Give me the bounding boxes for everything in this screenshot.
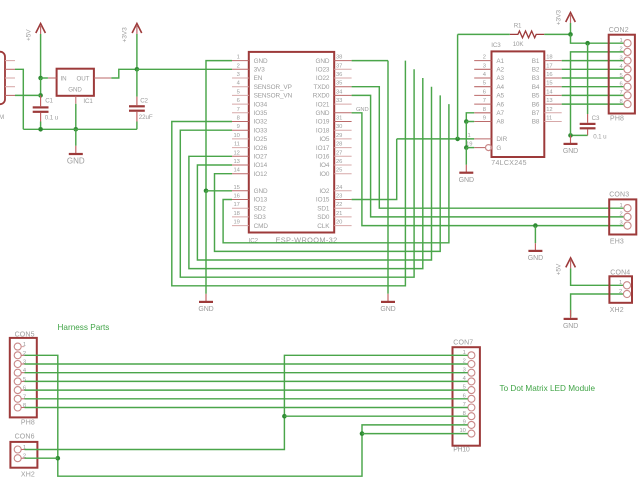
wire GND branch down — [534, 226, 536, 244]
pin CON4.1 — [623, 282, 630, 289]
svg-text:10: 10 — [234, 133, 240, 139]
pin CON7.1 — [468, 352, 475, 359]
ground (below C3) — [564, 143, 578, 145]
svg-text:IO26: IO26 — [254, 145, 268, 152]
junction CON2.1 / C3 — [585, 41, 590, 46]
svg-text:PH10: PH10 — [453, 447, 470, 454]
svg-text:IO19: IO19 — [316, 119, 330, 126]
pin IC3.9 A8 — [474, 121, 491, 123]
svg-text:IO12: IO12 — [254, 171, 268, 178]
svg-text:A7: A7 — [496, 110, 504, 117]
wire GND rail — [23, 128, 137, 130]
pin IC3.19 G (inverted) — [474, 147, 485, 149]
svg-text:XH2: XH2 — [610, 307, 624, 314]
pin IC3.8 A7 — [474, 112, 491, 114]
supply +5V (left) — [36, 24, 46, 34]
pin CON1.3 — [5, 77, 15, 79]
wire B5 to CON2.7 — [562, 94, 624, 96]
svg-text:1: 1 — [619, 203, 622, 209]
svg-text:IO18: IO18 — [316, 127, 330, 134]
svg-text:24: 24 — [336, 185, 343, 191]
wire B2 to CON2.4 — [562, 68, 624, 70]
ground (below IC3) — [459, 172, 473, 174]
pin CON7.8 — [468, 413, 475, 420]
pin IC2.5 SENSOR_VN — [232, 94, 249, 96]
svg-text:+5V: +5V — [555, 263, 562, 275]
pin CON5.5 — [14, 378, 21, 385]
svg-text:C3: C3 — [592, 115, 600, 122]
svg-text:GND: GND — [254, 58, 268, 65]
wire IO32 (IC2.8 to A1) — [172, 61, 406, 286]
pin IC2.21 SD0 — [334, 216, 351, 218]
svg-text:IO32: IO32 — [254, 119, 268, 126]
svg-text:3: 3 — [237, 72, 240, 78]
capacitor C2 — [129, 105, 145, 107]
svg-text:GND: GND — [315, 58, 329, 65]
svg-text:GND: GND — [67, 157, 85, 166]
wire 3V3 junction to IC2 pin2 — [137, 68, 232, 70]
wire CON5.2 / CON6.2 net — [25, 355, 363, 476]
svg-text:B4: B4 — [532, 84, 540, 91]
wire +3V3 to CON2.1 — [571, 34, 624, 43]
pin IC2.26 IO4 — [334, 164, 351, 166]
pin IC2.38 GND — [334, 60, 351, 62]
pin CON3.3 — [624, 222, 631, 229]
svg-text:IO25: IO25 — [254, 136, 268, 143]
svg-text:PH8: PH8 — [610, 115, 624, 122]
svg-text:12: 12 — [234, 150, 240, 156]
svg-text:7: 7 — [237, 107, 240, 113]
pin CON7.6 — [468, 395, 475, 402]
svg-text:19: 19 — [234, 220, 240, 226]
pin IC2.31 IO19 — [334, 121, 351, 123]
wire DIR row — [397, 138, 475, 140]
svg-text:IO16: IO16 — [316, 154, 330, 161]
lead C1 top — [40, 95, 42, 106]
pin IC3.11 B8 — [544, 121, 561, 123]
pin IC1 IN stub — [48, 77, 57, 79]
wire IO33 (IC2.9 to A2) — [180, 69, 414, 277]
svg-text:IO0: IO0 — [319, 171, 330, 178]
svg-text:11: 11 — [234, 142, 240, 148]
pin IC3.1 DIR — [474, 138, 491, 140]
svg-text:26: 26 — [336, 159, 342, 165]
wire CON1.5 to +5V junction — [15, 94, 41, 96]
pin IC2.25 IO0 — [334, 173, 351, 175]
wire +5V vertical to IN junction — [40, 34, 42, 78]
svg-text:SD2: SD2 — [254, 205, 267, 212]
wire CON6.1 to CON7.1 net — [25, 355, 468, 449]
buffer IC3 body — [492, 51, 545, 157]
svg-text:2: 2 — [619, 47, 622, 53]
pin IC3.6 A5 — [474, 94, 491, 96]
svg-text:37: 37 — [336, 63, 342, 69]
svg-text:28: 28 — [336, 142, 342, 148]
svg-text:DIR: DIR — [496, 136, 507, 143]
svg-text:13: 13 — [234, 159, 240, 165]
lead C2 top — [136, 97, 138, 106]
svg-text:IO23: IO23 — [316, 67, 330, 74]
svg-text:IO22: IO22 — [316, 75, 330, 82]
svg-text:5: 5 — [483, 81, 486, 87]
pin IC2.17 SD2 — [232, 207, 249, 209]
svg-text:CON7: CON7 — [453, 339, 473, 346]
pin IC2.28 IO17 — [334, 147, 351, 149]
pin IC2.9 IO33 — [232, 129, 249, 131]
pin CON7.5 — [468, 387, 475, 394]
svg-text:6: 6 — [483, 89, 486, 95]
lead C1 bottom — [40, 113, 42, 122]
pin IC2.37 IO23 — [334, 68, 351, 70]
svg-text:CLK: CLK — [317, 223, 330, 230]
ground (below IC2 left) — [199, 301, 213, 303]
pin CON5.1 — [14, 343, 21, 350]
svg-text:8: 8 — [237, 116, 240, 122]
svg-text:12: 12 — [546, 107, 552, 113]
svg-text:A3: A3 — [496, 75, 504, 82]
pin IC2.24 IO2 — [334, 190, 351, 192]
svg-text:33: 33 — [336, 98, 342, 104]
svg-text:17: 17 — [546, 63, 552, 69]
pin IC2.6 IO34 — [232, 103, 249, 105]
wire 3V3 down to C2 — [136, 69, 138, 96]
svg-text:B6: B6 — [532, 101, 540, 108]
svg-text:CON3: CON3 — [609, 192, 629, 199]
svg-text:2: 2 — [483, 55, 486, 61]
svg-text:GND: GND — [563, 148, 578, 155]
wire CON5.5 to CON7.4 — [25, 380, 468, 382]
svg-text:30: 30 — [336, 124, 342, 130]
svg-text:2: 2 — [619, 289, 622, 295]
wire CON7.10 — [362, 433, 468, 435]
wire CON5.6 to CON7.5 — [25, 389, 468, 391]
svg-text:RXD0: RXD0 — [313, 93, 330, 100]
regulator IC1 body — [57, 69, 94, 96]
svg-text:21: 21 — [336, 211, 342, 217]
pin IC2.14 IO12 — [232, 173, 249, 175]
lead ground right — [387, 294, 389, 302]
wire IC1 GND down to rail — [75, 104, 77, 130]
svg-text:+3V3: +3V3 — [122, 27, 129, 43]
wire CON6.2 stub to vertical — [25, 457, 58, 459]
pin CON5.4 — [14, 369, 21, 376]
svg-text:38: 38 — [336, 55, 342, 61]
junction C3 GND / CON2.2 — [568, 133, 573, 138]
pin IC2.8 IO32 — [232, 121, 249, 123]
svg-text:CON6: CON6 — [15, 433, 35, 440]
pin IC2.18 SD3 — [232, 216, 249, 218]
connector CON3 body — [609, 199, 636, 234]
pin IC2.33 IO21 — [334, 103, 351, 105]
pin IC2.12 IO27 — [232, 155, 249, 157]
pin IC2.19 CMD — [232, 225, 249, 227]
svg-text:1: 1 — [467, 133, 470, 139]
pin CON7.2 — [468, 361, 475, 368]
capacitor C1 — [33, 106, 49, 108]
junction +3V3 / R1 / CON2.1 — [568, 32, 573, 37]
svg-text:GND: GND — [315, 110, 329, 117]
ground (below CON3) — [528, 250, 542, 252]
svg-text:IO33: IO33 — [254, 127, 268, 134]
svg-text:A1: A1 — [496, 58, 504, 65]
pin CON5.3 — [14, 361, 21, 368]
pin CON2.2 — [624, 48, 631, 55]
pin IC2.4 SENSOR_VP — [232, 86, 249, 88]
svg-text:CON5: CON5 — [15, 332, 35, 339]
svg-text:SD1: SD1 — [317, 205, 330, 212]
lead C3 bottom — [587, 129, 589, 135]
svg-text:IO35: IO35 — [254, 110, 268, 117]
pin IC3.2 A1 — [474, 60, 491, 62]
pin CON3.2 — [624, 213, 631, 220]
wire OUT to 3V3 junction (step) — [111, 69, 137, 78]
svg-text:IO14: IO14 — [254, 162, 268, 169]
pin CON1.2 — [5, 68, 15, 70]
pin IC3.13 B6 — [544, 103, 561, 105]
svg-text:0.1 u: 0.1 u — [593, 133, 607, 140]
wire TXD0 (IC2.35 to CON3.1) — [352, 87, 624, 209]
svg-text:17: 17 — [234, 202, 240, 208]
junction +5V / IC1 IN — [38, 76, 43, 81]
svg-text:To Dot Matrix LED Module: To Dot Matrix LED Module — [500, 384, 596, 393]
svg-text:5: 5 — [619, 73, 622, 79]
svg-text:A5: A5 — [496, 93, 504, 100]
wire +5V junction to C1 — [40, 78, 42, 95]
svg-text:A2: A2 — [496, 67, 504, 74]
junction GND rail / C1 — [38, 127, 43, 132]
svg-text:16: 16 — [546, 72, 552, 78]
svg-text:C2: C2 — [140, 97, 148, 104]
svg-text:A8: A8 — [496, 119, 504, 126]
pin IC2.35 TXD0 — [334, 86, 351, 88]
svg-text:9: 9 — [237, 124, 240, 130]
svg-text:GND: GND — [198, 306, 213, 313]
lead ground (A7 A8 G) — [465, 165, 467, 172]
pin IC1 GND lead — [75, 96, 77, 104]
capacitor C3 — [580, 123, 596, 125]
pin CON1.5 — [5, 94, 15, 96]
wire CON2.1 net down to C3 — [587, 43, 589, 114]
pin IC2.16 IO13 — [232, 199, 249, 201]
wire A8 to junction — [466, 121, 474, 123]
pin IC2.34 RXD0 — [334, 94, 351, 96]
svg-text:IO13: IO13 — [254, 197, 268, 204]
wire IC2.1 GND to left vertical — [206, 61, 232, 191]
pin IC3.17 B2 — [544, 68, 561, 70]
pin IC2.23 IO15 — [334, 199, 351, 201]
pin CON2.7 — [624, 92, 631, 99]
junction CON7.9 / CON7.10 — [360, 431, 365, 436]
pin CON2.5 — [624, 74, 631, 81]
svg-text:XH2: XH2 — [21, 472, 35, 479]
svg-text:GND: GND — [254, 188, 268, 195]
pin IC2.13 IO14 — [232, 164, 249, 166]
wire CON5.4 to CON7.3 — [25, 372, 468, 374]
svg-text:3: 3 — [619, 55, 622, 61]
svg-text:6: 6 — [619, 82, 622, 88]
pin CON7.3 — [468, 369, 475, 376]
svg-text:2: 2 — [237, 63, 240, 69]
svg-text:8: 8 — [483, 107, 486, 113]
pin CON4.2 — [623, 290, 630, 297]
wire A8 down to G — [465, 122, 467, 148]
svg-text:1: 1 — [619, 38, 622, 44]
svg-text:10K: 10K — [513, 41, 525, 48]
ground (below IC2 right) — [381, 301, 395, 303]
svg-text:29: 29 — [336, 133, 342, 139]
pin IC3.12 B7 — [544, 112, 561, 114]
pin IC2.32 GND — [334, 112, 351, 114]
junction GND branch under CON3 — [533, 223, 538, 228]
wire IO13 (IC2.16 to A6) — [223, 104, 449, 243]
wire GND rail to ground symbol — [75, 129, 77, 146]
wire G net down to ground — [465, 148, 467, 165]
svg-text:1: 1 — [619, 280, 622, 286]
junction CON6.2 — [56, 456, 61, 461]
pin IC2.1 GND — [232, 60, 249, 62]
wire B6 to CON2.8 — [562, 103, 624, 105]
pin CON2.1 — [624, 40, 631, 47]
svg-text:15: 15 — [234, 185, 240, 191]
pin CON7.4 — [468, 378, 475, 385]
lead ground left — [205, 294, 207, 302]
svg-text:27: 27 — [336, 150, 342, 156]
resistor R1 — [510, 31, 545, 38]
svg-text:18: 18 — [234, 211, 240, 217]
connector CON2 body — [609, 35, 635, 114]
junction GND / IC2.15 — [204, 189, 209, 194]
svg-text:G: G — [496, 145, 501, 152]
pin CON2.6 — [624, 83, 631, 90]
svg-text:13: 13 — [546, 98, 552, 104]
svg-text:IO2: IO2 — [319, 188, 330, 195]
svg-text:IO21: IO21 — [316, 101, 330, 108]
svg-text:GND: GND — [68, 87, 82, 94]
svg-text:B3: B3 — [532, 75, 540, 82]
junction G — [464, 145, 469, 150]
svg-text:1: 1 — [23, 342, 26, 348]
lead C2 bottom — [136, 112, 138, 122]
svg-text:+3V3: +3V3 — [555, 10, 562, 26]
svg-text:IO17: IO17 — [316, 145, 330, 152]
svg-text:74LCX245: 74LCX245 — [491, 160, 526, 167]
wire IO27 (IC2.12 to A3) — [189, 78, 423, 269]
wire IO14 (IC2.13 to A4) — [197, 87, 431, 260]
wire IC2.38 GND down — [352, 60, 388, 62]
svg-text:22uF: 22uF — [139, 114, 153, 121]
pin CON5.8 — [14, 404, 21, 411]
svg-text:3: 3 — [483, 63, 486, 69]
pin CON5.7 — [14, 395, 21, 402]
svg-text:18: 18 — [546, 55, 552, 61]
svg-text:11: 11 — [546, 116, 552, 122]
svg-text:R1: R1 — [514, 22, 522, 29]
pin IC2.10 IO25 — [232, 138, 249, 140]
svg-text:34: 34 — [336, 89, 343, 95]
svg-text:B2: B2 — [532, 67, 540, 74]
wire +5V to CON4.1 — [571, 268, 624, 285]
pin IC2.29 IO5 — [334, 138, 351, 140]
pin CON3.1 — [624, 205, 631, 212]
pin CON7.7 — [468, 404, 475, 411]
svg-text:IO27: IO27 — [254, 154, 268, 161]
supply +5V (right) — [566, 258, 576, 268]
svg-text:TXD0: TXD0 — [313, 84, 329, 91]
pin IC2.27 IO16 — [334, 155, 351, 157]
connector CON6 body — [10, 442, 37, 468]
wire CON7.8 — [284, 415, 467, 417]
svg-text:3: 3 — [619, 220, 622, 226]
wire C2 to GND rail — [136, 122, 138, 130]
junction GND rail / IC1 — [74, 127, 79, 132]
svg-text:1: 1 — [237, 55, 240, 61]
pin IC3.3 A2 — [474, 68, 491, 70]
svg-text:B1: B1 — [532, 58, 540, 65]
svg-text:IO5: IO5 — [319, 136, 330, 143]
svg-text:Harness Parts: Harness Parts — [58, 323, 110, 332]
lead C3 top — [587, 114, 589, 123]
pin CON7.10 — [468, 430, 475, 437]
pin IC2.15 GND — [232, 190, 249, 192]
svg-text:GND: GND — [528, 255, 543, 262]
pin CON6.2 — [14, 455, 21, 462]
svg-text:OUT: OUT — [77, 75, 90, 82]
svg-text:22: 22 — [336, 202, 342, 208]
svg-text:PH8: PH8 — [21, 420, 35, 427]
pin IC2.2 3V3 — [232, 68, 249, 70]
wire C3 bottom to GND corner — [571, 134, 588, 136]
junction A8 / A7 / G — [464, 119, 469, 124]
svg-text:IN: IN — [61, 75, 67, 82]
svg-text:GND: GND — [563, 323, 578, 330]
supply +3V3 (left) — [132, 24, 142, 34]
svg-text:GND: GND — [459, 177, 474, 184]
pin IC2.36 IO22 — [334, 77, 351, 79]
pin IC2.30 IO18 — [334, 129, 351, 131]
svg-text:A4: A4 — [496, 84, 504, 91]
svg-text:14: 14 — [546, 89, 553, 95]
svg-text:35: 35 — [336, 81, 342, 87]
junction +3V3 / OUT / C2 / IC2 3V3 — [135, 67, 140, 72]
svg-text:25: 25 — [336, 168, 342, 174]
svg-text:7: 7 — [483, 98, 486, 104]
svg-text:IC1: IC1 — [83, 98, 93, 105]
pin CON5.6 — [14, 387, 21, 394]
wire CON4.2 to ground — [571, 294, 624, 317]
svg-text:31: 31 — [336, 116, 342, 122]
pin CON5.2 — [14, 352, 21, 359]
svg-text:SD3: SD3 — [254, 214, 267, 221]
svg-text:7: 7 — [619, 90, 622, 96]
wire IO15 (IC2.23 to DIR) — [352, 139, 397, 200]
svg-text:C1: C1 — [45, 97, 53, 104]
pin IC2.3 EN — [232, 77, 249, 79]
svg-text:EH3: EH3 — [610, 238, 624, 245]
svg-text:6: 6 — [237, 98, 240, 104]
wire R1 to DIR vertical — [457, 34, 459, 138]
svg-text:23: 23 — [336, 194, 342, 200]
svg-text:IC3: IC3 — [491, 42, 501, 49]
connector CON5 body — [10, 338, 37, 418]
pin IC2.11 IO26 — [232, 147, 249, 149]
connector CON1 (cut off at page edge) — [0, 52, 5, 104]
wire C1 to GND rail — [40, 122, 42, 130]
svg-text:2: 2 — [619, 212, 622, 218]
svg-text:A6: A6 — [496, 101, 504, 108]
svg-text:16: 16 — [234, 194, 240, 200]
junction CON7.8 net — [282, 414, 287, 419]
svg-text:15: 15 — [546, 81, 552, 87]
